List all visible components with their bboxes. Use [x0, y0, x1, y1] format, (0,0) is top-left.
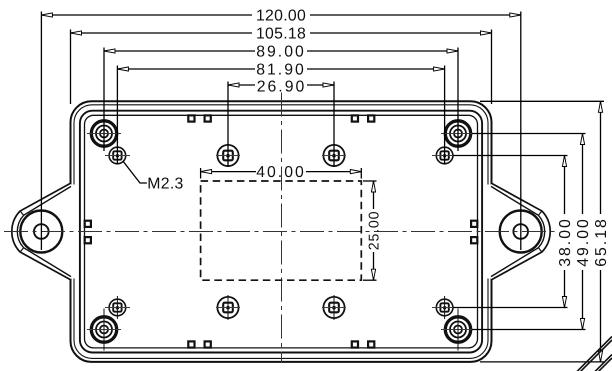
right ear washer boss circle: [500, 211, 542, 253]
dimension 120.00 line: [41, 12, 520, 251]
wall clip squares bottom wall: [188, 341, 374, 347]
right ear mounting hole: [513, 224, 528, 239]
svg-text:120.00: 120.00: [256, 8, 306, 25]
right ear tick top: [539, 211, 542, 215]
svg-text:26.90: 26.90: [257, 78, 307, 95]
break diagonals bottom-right: [577, 337, 612, 371]
corner screw boss top-left: [87, 121, 121, 146]
white patch right ear zone: [485, 185, 500, 279]
M2.3 hole bottom-right: [432, 296, 457, 319]
left mounting ear outline: [12, 183, 71, 280]
svg-text:M2.3: M2.3: [147, 176, 183, 193]
right mounting ear outline: [491, 183, 550, 280]
enclosure outer wall line 2: [74, 105, 488, 359]
svg-text:81.90: 81.90: [256, 62, 306, 79]
svg-text:49.00: 49.00: [575, 217, 592, 267]
enclosure inner wall line 4: [85, 115, 478, 348]
left ear washer boss circle: [20, 211, 62, 253]
main horizontal centerline: [4, 231, 557, 233]
enclosure outer wall line 1: [71, 101, 492, 362]
middle hole bottom-right: [322, 295, 346, 320]
M2.3 leader line: [123, 162, 147, 184]
dimension 49.00 line: [472, 134, 586, 330]
main vertical centerline: [281, 93, 283, 363]
left ear mounting hole: [34, 224, 49, 239]
corner screw boss bottom-left: [87, 309, 121, 351]
wall clip squares left wall: [85, 221, 91, 244]
dimension 25.00 line: [363, 181, 377, 280]
left ear tick bottom: [20, 248, 23, 252]
corner screw boss top-right: [441, 121, 475, 146]
dimension 38.00 line: [453, 156, 568, 308]
svg-text:25.00: 25.00: [367, 211, 383, 251]
left ear tick top: [20, 211, 23, 215]
dashed PCB area rectangle: [201, 181, 362, 280]
middle hole top-right: [322, 145, 346, 166]
M2.3 hole bottom-left: [105, 296, 130, 319]
right ear tick bottom: [539, 248, 542, 252]
corner screw boss bottom-right: [441, 309, 475, 351]
dimension 105.18 line: [71, 30, 492, 105]
wall clip squares right wall: [471, 221, 477, 244]
wall clip squares top wall: [188, 115, 374, 121]
right ear inner edge: [491, 186, 545, 276]
dimension 89.00 line: [104, 48, 458, 152]
dimension 26.90 line: [228, 82, 334, 168]
middle hole top-left: [216, 145, 240, 166]
dimension 81.90 line: [117, 66, 444, 165]
svg-text:89.00: 89.00: [256, 44, 306, 61]
M2.3 hole top-right: [432, 147, 457, 164]
svg-text:105.18: 105.18: [256, 26, 306, 43]
white patch left ear zone: [63, 185, 78, 279]
enclosure inner wall line 3: [80, 111, 482, 353]
dimension 65.18 line: [480, 101, 604, 362]
dimension 40.00 line: [201, 168, 362, 179]
M2.3 hole top-left: [105, 147, 130, 164]
left ear inner edge: [17, 186, 71, 276]
middle hole bottom-left: [216, 295, 240, 320]
svg-text:38.00: 38.00: [557, 217, 574, 267]
svg-text:40.00: 40.00: [256, 164, 306, 181]
svg-text:65.18: 65.18: [593, 217, 610, 267]
